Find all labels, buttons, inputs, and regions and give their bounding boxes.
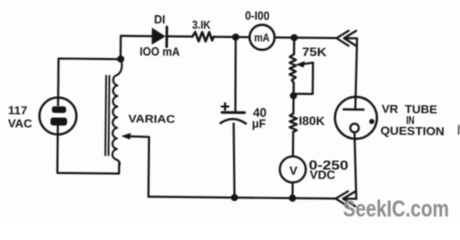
capacitor C1 curved plate (220, 119, 245, 124)
node junction A (variac top / source / rail) (117, 55, 124, 62)
wire pot wiper loop (294, 62, 313, 93)
svg-text:QUESTION: QUESTION (380, 126, 444, 139)
node junction C (pot top) (291, 34, 298, 41)
svg-text:VARIAC: VARIAC (128, 113, 175, 125)
svg-text:VDC: VDC (310, 168, 336, 182)
svg-text:μF: μF (252, 117, 266, 131)
variac wiper arrow (121, 133, 131, 140)
svg-text:V: V (289, 164, 297, 178)
source V1 117 VAC circle (39, 97, 76, 134)
svg-text:I80K: I80K (299, 114, 325, 128)
svg-text:DI: DI (154, 12, 165, 26)
node junction B (capacitor top) (232, 33, 239, 40)
resistor R3 180K (290, 113, 297, 132)
tube cathode lead to bottom rail (354, 132, 357, 199)
capacitor C1 lead top (235, 37, 236, 112)
connector clip top (double chevron) (336, 31, 348, 46)
wire connector to tube top (343, 38, 357, 109)
capacitor C1 polarity plus (222, 105, 229, 107)
wire pot bottom to 180K (292, 97, 294, 114)
resistor R1 3.1K (192, 32, 213, 41)
svg-text:3.IK: 3.IK (192, 20, 211, 32)
svg-text:IOO mA: IOO mA (140, 44, 181, 58)
capacitor C1 top plate (222, 111, 244, 114)
source plug plate bottom (50, 117, 67, 125)
svg-text:117: 117 (8, 105, 27, 117)
svg-text:mA: mA (254, 32, 270, 44)
svg-text:75K: 75K (302, 45, 327, 59)
transformer T1 VARIAC winding (112, 59, 122, 173)
scan artifact right edge (458, 126, 460, 135)
transformer T1 VARIAC core (104, 76, 107, 155)
capacitor C1 lead bottom (233, 124, 235, 198)
wire top rail left segment (121, 36, 152, 60)
svg-text:SeekIC.com: SeekIC.com (343, 196, 449, 222)
node junction E (voltmeter bottom) (289, 195, 296, 202)
meter M2 voltmeter V (280, 156, 306, 182)
wire source bottom to lower loop (57, 126, 119, 174)
wire wiper to bottom rail (128, 136, 149, 196)
potentiometer R2 75K (289, 38, 296, 94)
wire voltmeter to bottom rail (291, 182, 293, 198)
tube anode plate (344, 108, 364, 111)
wire connector to tube bottom (343, 198, 356, 200)
wire diode to resistor (167, 35, 193, 37)
pot wiper arrow (295, 61, 304, 67)
svg-text:VAC: VAC (8, 118, 32, 130)
meter M1 mA (249, 25, 274, 50)
tube pin dot (369, 119, 374, 124)
tube VR envelope (335, 97, 377, 139)
svg-text:0-I00: 0-I00 (245, 9, 270, 23)
diode D1 (152, 28, 166, 45)
wire meter to top connector (275, 36, 337, 39)
source plug plate top (52, 106, 66, 113)
wire 180K to voltmeter (292, 132, 294, 156)
tube cathode circle (350, 124, 359, 133)
node junction F (capacitor bottom) (231, 194, 238, 201)
wire from node A to AC source top (58, 59, 121, 106)
wire bottom rail (148, 197, 335, 199)
wire resistor to meter (214, 36, 250, 38)
connector clip bottom (double chevron) (336, 191, 348, 206)
node junction D (pot bottom / 180K top) (290, 92, 297, 99)
